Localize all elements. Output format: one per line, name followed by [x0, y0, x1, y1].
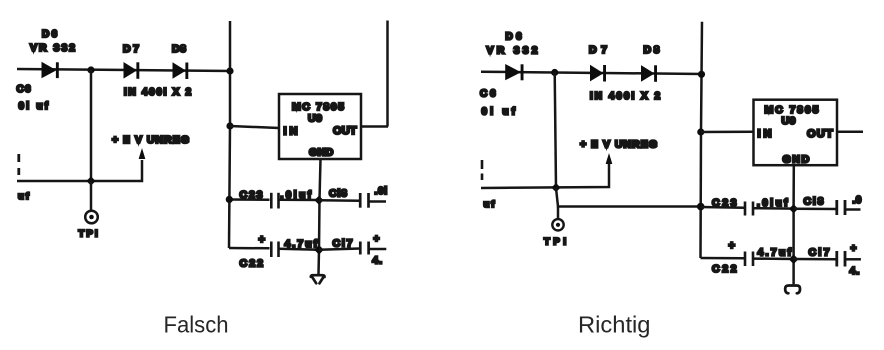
wire to IN — [230, 126, 279, 128]
polarity plus C17 — [851, 244, 857, 255]
svg-text:VR 332: VR 332 — [487, 45, 539, 57]
wire left rail — [701, 22, 703, 258]
label uf left edge — [484, 199, 497, 210]
svg-text:U9: U9 — [782, 115, 797, 127]
node junction J2 — [86, 176, 95, 185]
label VR 332 — [30, 42, 76, 54]
wire GND pin down — [792, 165, 795, 284]
diode D7 — [590, 65, 606, 82]
label IN4001 X 2 — [590, 91, 661, 102]
capacitor plate remnants left edge — [17, 154, 20, 175]
svg-text:4.: 4. — [850, 265, 861, 277]
wire OUT — [837, 131, 863, 134]
svg-text:C22: C22 — [712, 263, 738, 275]
label 0I uf — [19, 101, 49, 112]
svg-text:4.7uf: 4.7uf — [285, 238, 318, 250]
svg-text:C6: C6 — [17, 84, 32, 95]
svg-text:0l uf: 0l uf — [482, 107, 516, 118]
node junction J4 rail/IN — [226, 122, 233, 129]
polarity plus C22 — [729, 240, 735, 252]
label +11V UNREG — [580, 139, 658, 151]
arrow +11V unreg — [606, 153, 613, 164]
ground — [311, 275, 325, 283]
capacitor C17 — [360, 242, 368, 255]
svg-text:4.: 4. — [372, 255, 383, 267]
node junction rail/C23 — [226, 196, 233, 203]
label C17 — [333, 238, 354, 250]
regulator U9 box MC 7805 — [279, 94, 361, 159]
svg-text:C22: C22 — [240, 258, 265, 270]
label 4.7uf — [285, 238, 318, 250]
wire C22 row left — [229, 247, 270, 250]
wire gndline to C18 — [319, 199, 360, 202]
wire GND pin down — [319, 159, 321, 275]
arrow +11V unreg — [139, 148, 146, 159]
node junction rail/TP1 wire — [697, 203, 705, 211]
label TP1 — [544, 237, 570, 248]
node junction J3R rail/main — [698, 71, 705, 78]
capacitor C18 — [360, 193, 368, 208]
svg-text:+: + — [729, 240, 735, 252]
label C22 — [240, 258, 265, 270]
capacitor C23 — [745, 202, 753, 216]
label U9 — [782, 115, 797, 127]
node junction gndline/C22 — [789, 254, 799, 264]
label .0 cut — [853, 195, 862, 206]
wire gndline to C17 — [794, 258, 836, 261]
diode D8 — [173, 62, 189, 79]
wire left rail — [229, 21, 230, 248]
label 4.7uf — [758, 247, 792, 259]
svg-text:Falsch: Falsch — [164, 312, 229, 338]
caption Richtig — [578, 312, 651, 338]
wire C22 to gnd line — [754, 257, 794, 260]
svg-text:.0luf: .0luf — [281, 190, 312, 201]
diode D8 — [641, 65, 657, 82]
wire vertical from J1 to uf-row — [90, 70, 93, 181]
svg-text:GND: GND — [783, 154, 810, 166]
wire gndline to C18 — [794, 208, 836, 211]
svg-text:Richtig: Richtig — [578, 312, 651, 338]
label C18 — [804, 196, 825, 208]
caption Falsch — [164, 312, 229, 338]
label D7 — [123, 43, 140, 55]
node junction gndline/C23 — [789, 204, 798, 213]
wire TP1 stub — [90, 181, 93, 211]
pin label GND — [309, 147, 334, 159]
node junction J1R — [551, 69, 558, 76]
svg-text:uf: uf — [484, 199, 497, 210]
node junction J3 rail/main — [226, 67, 233, 74]
wire OUT — [361, 125, 388, 128]
svg-text:C23: C23 — [712, 197, 738, 209]
svg-text:.0l: .0l — [375, 186, 388, 197]
label MC 7805 — [292, 101, 345, 113]
wire C22 row left — [701, 257, 745, 260]
node junction J2R — [551, 183, 560, 192]
svg-text:MC 7805: MC 7805 — [292, 101, 345, 113]
wire uf-row horizontal — [481, 162, 609, 188]
svg-text:uf: uf — [18, 191, 31, 202]
svg-text:U9: U9 — [308, 113, 323, 125]
capacitor C22 — [745, 252, 753, 267]
svg-text:Cl8: Cl8 — [804, 196, 825, 208]
polarity plus C17 — [374, 234, 380, 245]
test point TP1 — [85, 211, 98, 224]
wire C23 row left — [701, 206, 744, 209]
wire C18 stub — [370, 200, 387, 203]
wire C23 row left — [229, 198, 270, 201]
svg-text:+: + — [851, 244, 857, 255]
svg-text:Cl7: Cl7 — [809, 247, 831, 259]
polarity plus C22 — [259, 234, 265, 246]
diode D6 — [42, 62, 59, 78]
label 4. cut — [372, 255, 383, 267]
svg-text:+ II V UNREG: + II V UNREG — [580, 139, 658, 151]
wire main input left — [17, 69, 231, 71]
wire main input left — [481, 72, 702, 74]
svg-text:OUT: OUT — [333, 125, 357, 137]
node junction J1 — [87, 66, 94, 73]
diode D7 — [124, 62, 140, 79]
wire C18 stub — [846, 208, 861, 211]
label .0 cut — [375, 186, 388, 197]
svg-text:IN: IN — [284, 126, 299, 138]
wire uf-row horizontal — [17, 160, 142, 181]
svg-text:GND: GND — [309, 147, 334, 159]
label .01uf — [757, 198, 788, 209]
wire C17 stub — [370, 248, 387, 251]
label D6 — [42, 29, 58, 40]
pin label IN — [284, 126, 299, 138]
label U9 — [308, 113, 323, 125]
label +11V UNREG — [112, 134, 190, 146]
label C6 — [17, 84, 32, 95]
label D8 — [644, 44, 661, 56]
svg-text:TPI: TPI — [544, 237, 570, 248]
pin label GND — [783, 154, 810, 166]
svg-text:.0luf: .0luf — [757, 198, 788, 209]
wire gndline to C17 — [319, 249, 360, 250]
capacitor C17 — [837, 251, 845, 267]
label IN4001 X 2 — [124, 87, 192, 98]
pin label OUT — [333, 125, 357, 137]
svg-text:IN 400I X 2: IN 400I X 2 — [590, 91, 661, 102]
svg-text:D6: D6 — [42, 29, 58, 40]
wire to IN — [701, 131, 754, 134]
label uf left edge — [18, 191, 31, 202]
label VR 332 — [487, 45, 539, 57]
label C17 — [809, 247, 831, 259]
svg-text:OUT: OUT — [807, 128, 833, 140]
svg-text:MC 7805: MC 7805 — [765, 104, 820, 116]
regulator U9 box MC 7805 right — [754, 100, 838, 166]
capacitor C22 — [271, 242, 278, 258]
wire TP1 bend to rail — [556, 188, 702, 207]
label D6 — [506, 32, 523, 43]
svg-text:.0: .0 — [853, 195, 862, 206]
svg-text:D7: D7 — [123, 43, 140, 55]
svg-text:D8: D8 — [172, 43, 187, 55]
label .01uf — [281, 190, 312, 201]
label C6 — [480, 89, 497, 100]
wire right rail up — [386, 21, 389, 127]
label 4. cut — [850, 265, 861, 277]
wire vertical from J1R — [555, 73, 556, 189]
svg-text:D8: D8 — [644, 44, 661, 56]
svg-text:Cl7: Cl7 — [333, 238, 354, 250]
wire C22 to gnd line — [279, 249, 319, 250]
svg-text:C23: C23 — [240, 189, 265, 201]
svg-text:4.7uf: 4.7uf — [758, 247, 792, 259]
node junction gndline/C22 — [314, 245, 324, 255]
ground right — [785, 286, 800, 294]
capacitor C18 — [837, 200, 845, 215]
svg-text:+: + — [259, 234, 265, 246]
svg-text:+: + — [374, 234, 380, 245]
label C18 — [329, 188, 348, 200]
svg-text:D7: D7 — [589, 44, 608, 56]
svg-text:Cl8: Cl8 — [329, 188, 348, 200]
wire TP1 stub — [557, 207, 560, 220]
label C22 — [712, 263, 738, 275]
label 0I uf — [482, 107, 516, 118]
svg-text:C6: C6 — [480, 89, 497, 100]
pin label OUT — [807, 128, 833, 140]
label D8 — [172, 43, 187, 55]
label MC 7805 — [765, 104, 820, 116]
label TP1 — [79, 229, 100, 240]
label D7 — [589, 44, 608, 56]
svg-text:TPI: TPI — [79, 229, 100, 240]
node junction gndline/C23 — [314, 196, 323, 205]
label C23 — [240, 189, 265, 201]
capacitor C23 — [271, 193, 278, 209]
wire C23 to gnd line — [754, 207, 794, 210]
capacitor plate remnants left edge — [481, 160, 484, 180]
test point TP1 — [552, 219, 563, 230]
svg-text:VR 332: VR 332 — [30, 42, 76, 54]
svg-text:IN 400I X 2: IN 400I X 2 — [124, 87, 192, 98]
svg-text:+ II V UNREG: + II V UNREG — [112, 134, 190, 146]
label C23 — [712, 197, 738, 209]
wire C17 stub — [846, 258, 861, 261]
svg-text:0l uf: 0l uf — [19, 101, 49, 112]
pin label IN — [758, 128, 773, 140]
wire C23 to gnd line — [279, 199, 319, 202]
svg-text:D6: D6 — [506, 32, 523, 43]
node junction J4R rail/IN — [697, 128, 704, 135]
diode D6 — [505, 64, 523, 80]
svg-text:IN: IN — [758, 128, 773, 140]
